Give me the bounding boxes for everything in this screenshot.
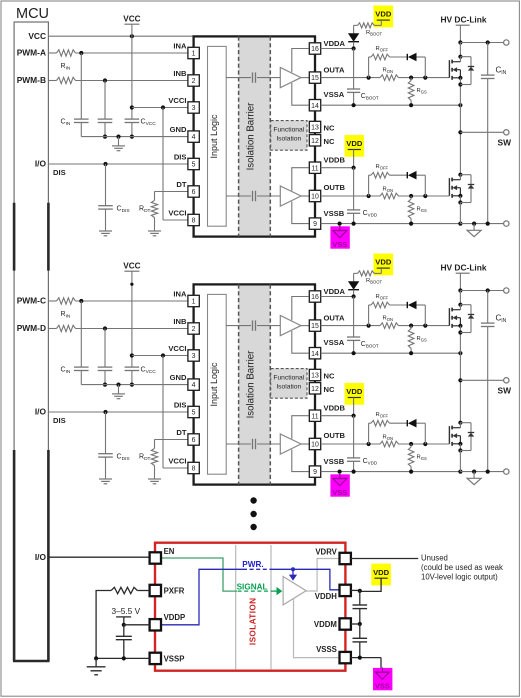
capacitor C_VCC [125, 353, 140, 386]
buffer A supply wires [292, 49, 309, 106]
resistor R_ON (B) [380, 441, 399, 447]
MCU pin label PWM-A [17, 48, 46, 58]
pin VSSP [150, 653, 185, 664]
svg-text:10V-level logic output): 10V-level logic output) [421, 573, 498, 582]
svg-text:RGS: RGS [417, 88, 427, 95]
label SIGNAL [237, 583, 268, 592]
ground (input filter) [112, 137, 125, 151]
resistor R_OFF (A) [371, 54, 390, 60]
label R_IN [61, 311, 71, 320]
svg-text:8: 8 [192, 218, 196, 225]
svg-text:VCC: VCC [28, 31, 46, 41]
svg-text:2: 2 [192, 78, 196, 85]
transistor Q_H (high-side MOSFET) [449, 55, 474, 87]
pin 15 (OUTA) [309, 65, 345, 83]
resistor R_DT [151, 200, 157, 217]
MCU pin label VCC [28, 31, 46, 41]
functional isolation block [271, 121, 307, 151]
isolation barrier band [239, 284, 271, 484]
label C_BOOT [361, 341, 379, 349]
terminal (SW) [504, 130, 509, 135]
pin PXFR [150, 585, 185, 596]
pin 4 (GND) [170, 125, 200, 142]
resistor R_OFF (B) [371, 420, 390, 426]
svg-text:PWM-A: PWM-A [17, 48, 46, 58]
svg-text:VDD: VDD [373, 568, 390, 577]
svg-text:4: 4 [192, 134, 196, 141]
resistor R_GS (A) [408, 78, 414, 106]
wire PWM-C to INA [48, 299, 188, 303]
svg-text:NC: NC [324, 137, 335, 146]
supply bar 3-5.5V [116, 617, 131, 627]
power flag VDD (channel B) [345, 135, 365, 168]
svg-text:10: 10 [311, 194, 319, 201]
wire VCC (MCU to driver IC) [48, 34, 193, 38]
capacitor C_VDD [347, 416, 360, 472]
pin EN [150, 547, 175, 564]
HV DC-Link rail [456, 273, 470, 292]
label 3-5.5 V [112, 606, 141, 616]
label C_VCC [141, 119, 157, 128]
resistor R_IN (PWM-C) [57, 298, 76, 304]
resistor R_BOOT [354, 271, 375, 276]
diode (bootstrap) [348, 25, 359, 48]
resistor R_OFF (A) [371, 302, 390, 308]
pin 2 (INB) [173, 69, 199, 86]
MCU pin label I/O [35, 407, 47, 417]
net label SW [498, 137, 512, 147]
svg-text:HV DC-Link: HV DC-Link [440, 263, 486, 273]
label R_OFF (A) [376, 46, 389, 53]
svg-text:16: 16 [311, 294, 319, 301]
svg-text:5: 5 [192, 410, 196, 417]
signal path dashed (green) [238, 590, 274, 592]
svg-text:16: 16 [311, 46, 319, 53]
wire VDDM external [351, 622, 362, 626]
svg-text:VDDP: VDDP [164, 613, 186, 622]
pin 13 (NC) [309, 121, 335, 132]
label C_IN (DC-link) [496, 66, 507, 77]
wire low-side source to ground rail [459, 451, 461, 472]
wire VSSA [321, 351, 463, 355]
pin 14 (VSSA) [309, 338, 344, 359]
ground (C_DIS) [99, 231, 112, 236]
svg-text:RGS: RGS [417, 207, 427, 214]
svg-text:I/O: I/O [35, 159, 47, 169]
wire VDDA [321, 294, 356, 298]
svg-text:12: 12 [311, 138, 319, 145]
svg-text:INB: INB [173, 317, 187, 326]
ground (R_DT) [148, 466, 161, 484]
label C_IN (DC-link) [496, 314, 507, 325]
resistor R_OFF (B) [371, 172, 390, 178]
MCU pin label PWM-C [17, 296, 46, 306]
wire GND [81, 135, 188, 139]
ground (R_DT) [148, 218, 161, 236]
resistor R_IN (PWM-A) [57, 50, 76, 56]
buffer B supply wires [292, 416, 309, 472]
svg-text:RON: RON [383, 315, 393, 322]
diode (R_OFF B) [407, 419, 416, 428]
capacitor C_IN (PWM-A branch) [74, 53, 89, 137]
MCU pin label I/O [35, 159, 47, 169]
svg-text:6: 6 [192, 189, 196, 196]
pin 3 (VCCI) [168, 344, 199, 361]
svg-text:INA: INA [173, 289, 187, 298]
power arrow (blue) [289, 569, 297, 580]
label R_ON (B) [383, 186, 393, 193]
svg-text:VCC: VCC [123, 261, 140, 270]
svg-text:VCCI: VCCI [168, 344, 186, 353]
buffer A supply wires [292, 297, 309, 354]
wire DT to R_DT [155, 440, 189, 449]
label R_ON (A) [383, 315, 393, 322]
svg-text:OUTB: OUTB [324, 431, 346, 440]
HV DC-Link rail [456, 25, 470, 44]
svg-text:DT: DT [176, 428, 186, 437]
svg-text:13: 13 [311, 125, 319, 132]
node (VCC rail artifact dot) [130, 283, 133, 286]
svg-text:(could be used as weak: (could be used as weak [421, 563, 503, 572]
turn-off branch B [369, 175, 426, 196]
label R_ON (A) [383, 67, 393, 74]
MCU pin label I/O (bottom) [35, 552, 47, 562]
pin 12 (NC) [309, 383, 335, 394]
wire VSSP external [94, 656, 150, 660]
svg-text:Unused: Unused [421, 553, 448, 562]
capacitor C_IN (PWM-A branch) [74, 301, 89, 385]
svg-text:VSSB: VSSB [324, 209, 345, 218]
pin 13 (NC) [309, 369, 335, 380]
MCU box bold segment (right wall lower) [47, 450, 50, 661]
net label HV DC-Link [440, 15, 486, 25]
svg-text:10: 10 [311, 442, 319, 449]
ground (power) [467, 224, 481, 237]
gate driver IC body [194, 284, 315, 484]
MCU box bold segment (left wall lower) [13, 450, 16, 661]
ground (power) [467, 472, 481, 485]
power flag VSS (bottom) [373, 667, 392, 690]
capacitor C_IN (PWM-B branch) [98, 81, 113, 139]
terminal (power ground) [504, 469, 509, 474]
label C_DIS [117, 454, 130, 463]
svg-text:4: 4 [192, 382, 196, 389]
svg-text:13: 13 [311, 373, 319, 380]
continuation dots [250, 497, 256, 530]
wire SW to terminal [460, 379, 503, 381]
svg-text:14: 14 [311, 351, 319, 358]
power flag VDD (bootstrap) [374, 6, 394, 28]
svg-text:VSSA: VSSA [324, 90, 345, 99]
MCU box [14, 22, 48, 661]
svg-text:RON: RON [383, 434, 393, 441]
svg-text:DT: DT [176, 180, 186, 189]
svg-text:GND: GND [170, 373, 187, 382]
pin 5 (DIS) [174, 400, 199, 417]
wire VDDB [321, 414, 356, 418]
svg-text:1: 1 [192, 51, 196, 58]
svg-text:NC: NC [324, 372, 335, 381]
capacitor C_IN (DC-link) [481, 43, 495, 224]
svg-text:PWM-D: PWM-D [17, 323, 46, 333]
pin 1 (INA) [173, 289, 199, 306]
pin 3 (VCCI) [168, 96, 199, 113]
wire VSSS external [351, 656, 381, 668]
svg-text:VDDA: VDDA [324, 39, 346, 48]
wire VDDH external [351, 589, 362, 593]
svg-text:RGS: RGS [417, 336, 427, 343]
label R_IN [61, 63, 71, 72]
svg-text:DIS: DIS [174, 400, 187, 409]
capacitor C_DIS [98, 164, 113, 231]
pin 12 (NC) [309, 135, 335, 146]
terminal (power ground) [504, 221, 509, 226]
net label HV DC-Link [440, 263, 486, 273]
svg-text:14: 14 [311, 103, 319, 110]
pin 2 (INB) [173, 317, 199, 334]
svg-text:ROFF: ROFF [376, 294, 389, 301]
MCU pin label PWM-D [17, 323, 46, 333]
svg-text:VDD: VDD [346, 139, 363, 148]
power flag VSS [330, 474, 349, 497]
svg-text:INB: INB [173, 69, 187, 78]
svg-text:Isolation: Isolation [276, 384, 301, 391]
output buffer A [280, 68, 309, 88]
svg-text:OUTA: OUTA [324, 65, 345, 74]
svg-text:Functional: Functional [273, 127, 304, 134]
label R_ON (B) [383, 434, 393, 441]
transistor Q_L (low-side MOSFET) [449, 173, 474, 205]
resistor R_ON (A) [380, 323, 399, 329]
wire VCCI [132, 105, 188, 109]
svg-text:2: 2 [192, 326, 196, 333]
wire VDRV unused [351, 558, 418, 560]
wire VCCI to pin 8 [163, 356, 188, 469]
wire power to VDDH (blue) [271, 567, 340, 590]
power symbol VCC [123, 261, 140, 355]
wire VDRV to buffer output [306, 559, 340, 592]
net label DIS [53, 168, 66, 177]
net label DIS [53, 416, 66, 425]
label R_GS (B) [417, 455, 427, 462]
functional isolation block [271, 369, 307, 399]
wire VDDP power (blue) [161, 569, 243, 625]
label ISOLATION [248, 598, 257, 646]
MCU box bold bottom edge [13, 660, 50, 663]
svg-text:RBOOT: RBOOT [366, 30, 382, 37]
wire rail between FETs [458, 291, 462, 423]
capacitor (VDDP decoupling) [116, 625, 132, 659]
capacitor C_BOOT [347, 49, 360, 106]
svg-text:8: 8 [192, 466, 196, 473]
MCU pin label PWM-B [17, 75, 46, 85]
svg-text:3–5.5 V: 3–5.5 V [112, 606, 141, 616]
svg-text:RBOOT: RBOOT [366, 278, 382, 285]
pin 5 (DIS) [174, 152, 199, 169]
signal arrow (green) [274, 587, 282, 595]
svg-text:VDD: VDD [375, 258, 392, 267]
diode (R_OFF B) [407, 171, 416, 180]
svg-text:PWR.: PWR. [242, 560, 263, 569]
power flag VSS [330, 226, 349, 249]
svg-text:INA: INA [173, 41, 187, 50]
svg-text:6: 6 [192, 437, 196, 444]
svg-text:Isolation Barrier: Isolation Barrier [246, 102, 257, 171]
svg-text:Isolation Barrier: Isolation Barrier [246, 350, 257, 419]
ground (C_DIS) [99, 479, 112, 484]
terminal (HV DC-Link) [504, 40, 509, 45]
isolator box (red) [155, 543, 345, 671]
power flag VDD (channel B) [345, 383, 365, 416]
gate driver IC body [194, 36, 315, 236]
svg-text:GND: GND [170, 125, 187, 134]
svg-text:OUTA: OUTA [324, 313, 345, 322]
svg-text:Input Logic: Input Logic [209, 114, 219, 159]
isolation barrier band [239, 36, 271, 236]
label C_DIS [117, 206, 130, 215]
power flag VDD (bootstrap) [374, 254, 394, 276]
pin 4 (GND) [170, 373, 200, 390]
wire OUTB (gate B) [321, 194, 450, 198]
power symbol VCC [123, 14, 140, 36]
wire PWM-A to INA [48, 51, 188, 55]
pin 10 (OUTB) [309, 431, 345, 450]
svg-text:9: 9 [313, 469, 317, 476]
pin VDDP [150, 613, 186, 630]
wire VCCI to pin 8 [163, 108, 188, 221]
wire I/O to DIS [48, 162, 188, 166]
pin 6 (DT) [176, 180, 199, 197]
wire rail between FETs [458, 43, 462, 175]
isolation capacitor (channel A) [226, 320, 280, 330]
label R_GS (B) [417, 207, 427, 214]
wire PWM-D to INB [48, 326, 188, 330]
svg-text:VSSS: VSSS [316, 645, 337, 654]
svg-text:VCCI: VCCI [168, 456, 186, 465]
pin 8 (VCCI) [168, 208, 199, 225]
svg-text:Functional: Functional [273, 375, 304, 382]
input logic block [208, 46, 227, 226]
resistor R_IN (PWM-B) [57, 77, 76, 83]
isolation capacitor (channel B) [226, 439, 280, 449]
svg-text:OUTB: OUTB [324, 183, 346, 192]
svg-text:VDDB: VDDB [324, 404, 346, 413]
svg-text:VDD: VDD [375, 10, 392, 19]
svg-text:MCU: MCU [16, 6, 49, 22]
label R_DT [139, 206, 151, 215]
wire VSSB [321, 470, 463, 474]
turn-off branch A [369, 305, 426, 326]
svg-text:VDDA: VDDA [324, 287, 346, 296]
resistor R_DT [151, 448, 157, 465]
power path dashed (blue) [243, 568, 271, 570]
svg-text:3: 3 [192, 353, 196, 360]
diode (R_OFF A) [407, 53, 416, 62]
power flag VDD (bottom) [360, 564, 391, 592]
MCU box bold segment (left wall upper) [13, 203, 16, 271]
wire power ground [460, 470, 503, 474]
wire VDDA [321, 46, 356, 50]
wire VCCI [132, 353, 188, 357]
output buffer A [280, 316, 309, 336]
pin 8 (VCCI) [168, 456, 199, 473]
wire power ground [460, 222, 503, 226]
pin VDDH [315, 585, 351, 601]
pin 11 (VDDB) [309, 404, 345, 422]
svg-text:15: 15 [311, 75, 319, 82]
pin 10 (OUTB) [309, 183, 345, 202]
turn-off branch B [369, 423, 426, 444]
label C_BOOT [361, 93, 379, 101]
label PWR. [242, 560, 263, 569]
svg-text:VDD: VDD [346, 387, 363, 396]
wire VDDP external [124, 624, 150, 626]
isolation capacitor (channel A) [226, 72, 280, 82]
label R_OFF (A) [376, 294, 389, 301]
resistor R_GS (A) [408, 326, 414, 354]
svg-text:RON: RON [383, 186, 393, 193]
pin 15 (OUTA) [309, 313, 345, 331]
label R_BOOT [366, 30, 382, 37]
svg-text:DIS: DIS [53, 416, 66, 425]
svg-text:SW: SW [498, 137, 512, 147]
svg-text:VCCI: VCCI [168, 96, 186, 105]
diode (R_OFF A) [407, 301, 416, 310]
capacitor C_VDD [347, 168, 360, 224]
note text (unused pin) [421, 553, 503, 581]
svg-text:1: 1 [192, 299, 196, 306]
buffer (driver stage) [283, 577, 306, 605]
capacitor (VDDM-VSSS) [353, 624, 368, 658]
resistor R_ON (B) [380, 193, 399, 199]
wire GND [81, 383, 188, 387]
diode (bootstrap) [348, 273, 359, 296]
ground (VSSP) [87, 658, 106, 674]
svg-text:11: 11 [311, 165, 318, 172]
wire I/O to EN [48, 556, 149, 558]
svg-text:EN: EN [164, 547, 175, 556]
wire DT to R_DT [155, 192, 189, 201]
svg-text:VSSP: VSSP [164, 654, 185, 663]
resistor (PXFR) [96, 587, 150, 658]
svg-text:ISOLATION: ISOLATION [248, 598, 257, 646]
capacitor C_IN (PWM-B branch) [98, 329, 113, 387]
isolation barrier line 1 [235, 545, 237, 669]
svg-text:VDDM: VDDM [314, 620, 337, 629]
wire SW to terminal [460, 131, 503, 133]
terminal (SW) [504, 378, 509, 383]
svg-text:SIGNAL: SIGNAL [237, 583, 268, 592]
svg-text:VDRV: VDRV [315, 547, 337, 556]
wire HV to terminal [460, 288, 503, 292]
svg-text:3: 3 [192, 105, 196, 112]
svg-text:VSS: VSS [332, 240, 347, 249]
wire OUTA (gate A) [321, 76, 450, 80]
svg-text:PWM-C: PWM-C [17, 296, 46, 306]
pin 14 (VSSA) [309, 90, 344, 111]
pin VDDM [314, 618, 351, 629]
svg-text:HV DC-Link: HV DC-Link [440, 15, 486, 25]
pin 1 (INA) [173, 41, 199, 58]
wire VSSB [321, 222, 463, 226]
svg-text:VSSB: VSSB [324, 457, 345, 466]
MCU title [16, 6, 49, 22]
label R_OFF (B) [376, 412, 389, 419]
pin VSSS [316, 645, 351, 664]
label R_GS (A) [417, 336, 427, 343]
transistor Q_L (low-side MOSFET) [449, 421, 474, 453]
turn-off branch A [369, 57, 426, 78]
